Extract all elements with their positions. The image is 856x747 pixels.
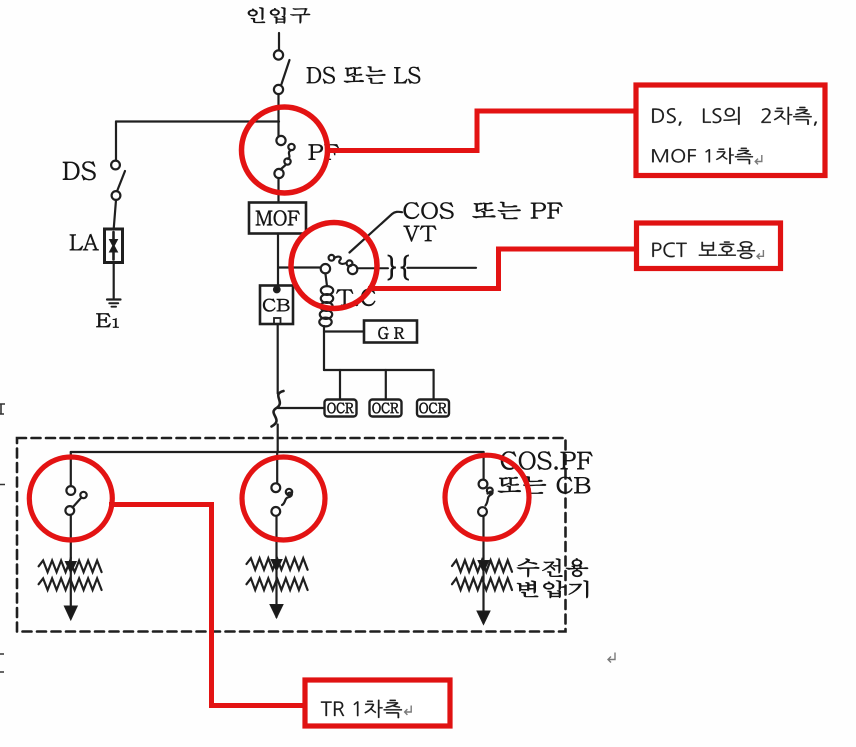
callout text PCT [652,241,755,259]
CB box [260,286,293,325]
label 변압기 [517,581,588,598]
transformer T3 winding 2 [452,578,512,590]
wire: drop to OCR2 [385,370,387,400]
disconnect switch DS (arrester branch) [111,161,120,170]
OCR box 3 [417,400,449,417]
wire [276,452,278,483]
dashed enclosure [17,438,566,632]
power fuse PF [276,136,285,145]
wire [277,178,279,202]
arrow through T2 [275,556,277,617]
red callout box: TR 1차측 [305,680,450,726]
switch S3 [479,480,488,489]
wire: switch to PT break [358,267,389,269]
wire: tap to GR [324,330,363,332]
wire: branch to COS switch [279,266,321,268]
red circle: TR primary highlight 2 [242,457,325,540]
label OCR 1 [328,403,354,413]
GR box [364,321,417,343]
COS switch [321,264,330,273]
OCR box 2 [370,400,402,417]
switch S1 (COS/PF) [66,486,75,495]
red callout box: DS, LS의 2차측 / MOF 1차측 [636,85,825,176]
paragraph return mark (stray) [608,653,615,663]
wire [114,200,116,229]
label LA [70,234,99,250]
transformer T2 winding 1 [247,558,308,570]
label E1 E [97,314,111,328]
red callout connector: TR 1차측 [109,502,305,706]
wire [483,452,485,480]
CT S-break [272,391,284,427]
red callout connector: DS/LS 2차측 [326,111,636,153]
label T.C [337,289,376,306]
transformer T2 winding 2 [247,578,308,590]
wire: drop to OCR1 [339,370,341,400]
wire [482,516,484,556]
wire [408,267,477,269]
wire: service entrance [278,33,280,50]
label COS 또는 PF [404,202,563,219]
red callout box: PCT 보호용 [637,223,781,269]
red circle: TR primary highlight 3 [445,455,529,539]
callout text DS LS line1 [652,107,817,126]
wire: coil to relay bus [323,326,325,370]
label 수전용 [517,559,588,578]
wire [70,452,72,486]
transformer T1 winding 1 [39,561,102,573]
label E1 sub [113,319,119,328]
ground E1 [107,298,121,300]
callout text MOF line2 [652,148,753,164]
label PF [309,145,339,160]
red circle: DS/LS secondary highlight [242,107,328,193]
arrow through T1 [70,558,72,618]
label GR [379,327,404,339]
wire [277,94,279,136]
wire: LV bus [71,451,484,453]
PT break symbol [388,255,395,279]
wire: drop to OCR3 [433,370,435,400]
label DS 또는 LS [307,67,420,84]
label COS.PF [501,452,592,470]
wire [277,325,279,394]
lightning arrester LA [105,229,123,263]
wire [275,516,277,556]
MOF box [249,203,306,234]
label MOF [256,211,300,226]
leader line to COS label [350,212,403,253]
wire: left branch vertical [115,122,117,161]
wire [277,234,279,286]
switch S2 [271,483,280,492]
red circle: TR primary highlight 1 [29,457,112,540]
wire [70,515,72,558]
label 또는 CB [498,477,590,494]
OCR box 1 [325,400,357,417]
wire [113,263,115,298]
wire: CT tap to OCR1 [278,407,324,409]
wire [277,425,279,453]
red circle: COS/VT highlight [291,223,377,309]
label DS [63,162,95,180]
wire: tie line to left DS branch [116,120,279,122]
callout text TR [321,700,402,718]
trip coil TC [325,274,327,287]
transformer T1 winding 2 [39,578,102,590]
label 인입구 [248,8,310,24]
scan artifacts left edge [0,404,5,414]
red callout connector: PCT 보호용 [368,249,636,291]
label OCR 2 [373,403,399,413]
label VT [404,226,436,241]
disconnect switch DS/LS [274,50,283,59]
label OCR 3 [420,403,447,413]
wire: relay bus [324,369,434,371]
arrow through T3 [482,556,484,623]
transformer T3 winding 1 [452,560,512,572]
label CB [263,299,289,312]
